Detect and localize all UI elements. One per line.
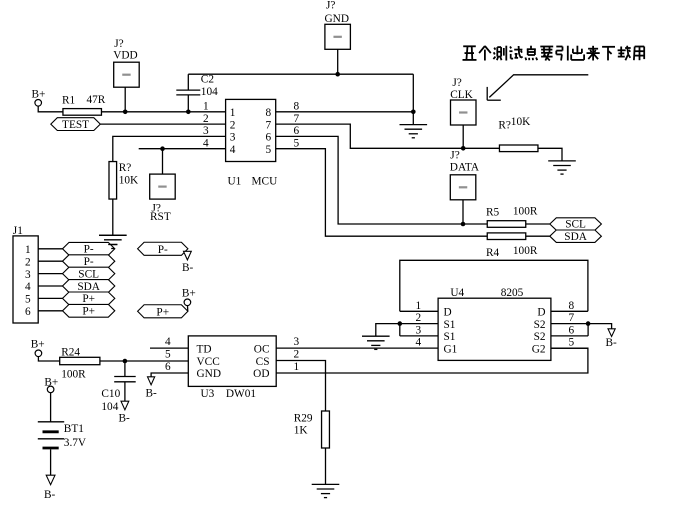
svg-text:3.7V: 3.7V — [64, 437, 87, 449]
resistor R? 10K (CLK) — [498, 116, 538, 152]
svg-text:SCL: SCL — [565, 219, 586, 231]
junction U4 pin2 — [398, 321, 403, 326]
svg-text:B-: B- — [44, 489, 56, 501]
svg-text:U4: U4 — [450, 287, 464, 299]
svg-text:100R: 100R — [61, 369, 86, 381]
wire U3 OC to U4 G1 — [276, 347, 438, 349]
svg-text:J?: J? — [452, 77, 461, 89]
svg-text:U1: U1 — [228, 176, 242, 188]
svg-text:TEST: TEST — [62, 119, 89, 131]
svg-text:B-: B- — [182, 262, 194, 274]
svg-text:4: 4 — [25, 281, 31, 293]
svg-text:C2: C2 — [201, 73, 215, 85]
svg-text:3: 3 — [416, 324, 422, 336]
svg-text:R24: R24 — [61, 347, 80, 359]
svg-text:R4: R4 — [486, 247, 500, 259]
svg-text:1: 1 — [203, 101, 209, 113]
svg-text:S2: S2 — [534, 319, 546, 331]
svg-text:5: 5 — [294, 138, 300, 150]
svg-text:C10: C10 — [101, 388, 120, 400]
svg-text:B-: B- — [606, 337, 618, 349]
wire U1 pin 4 — [139, 148, 226, 150]
svg-text:CS: CS — [256, 356, 270, 368]
resistor R? 10K (pulldown) — [109, 162, 139, 200]
svg-text:P-: P- — [158, 244, 168, 256]
svg-text:4: 4 — [416, 337, 422, 349]
wire GND connector drop — [337, 49, 339, 74]
svg-text:D: D — [537, 307, 545, 319]
wire U1 pin 7 to R? 10K — [276, 124, 501, 148]
node B+ terminal (BT1) — [44, 377, 58, 393]
terminal B- (C10) — [119, 401, 131, 424]
IC U3 DW01 — [188, 336, 276, 400]
svg-text:100R: 100R — [513, 245, 538, 257]
resistor R4 — [486, 233, 538, 259]
svg-text:7: 7 — [569, 312, 575, 324]
resistor R29 — [294, 411, 330, 448]
net label SDA — [550, 230, 602, 243]
svg-text:R?: R? — [498, 119, 511, 131]
capacitor C2 — [176, 73, 218, 112]
terminal B- (U4 S2) — [606, 329, 618, 349]
wire R? to ground (CLK) — [538, 148, 562, 161]
svg-text:6: 6 — [25, 306, 31, 318]
svg-text:5: 5 — [569, 337, 575, 349]
svg-text:3: 3 — [294, 336, 300, 348]
wire DATA drop — [462, 200, 464, 224]
svg-text:3: 3 — [230, 132, 236, 144]
svg-text:TD: TD — [197, 343, 212, 355]
svg-text:J?: J? — [114, 38, 123, 50]
wire U3 TD stub — [150, 347, 188, 349]
junction C2-rail — [186, 110, 191, 115]
wire RST drop — [162, 149, 164, 174]
wire VDD drop — [124, 87, 126, 112]
wire U4 D-D top loop — [400, 260, 588, 311]
svg-text:8205: 8205 — [501, 287, 524, 299]
wire U1 pin 6 to R5 — [276, 136, 487, 224]
U1 pin number labels — [203, 101, 300, 150]
svg-text:104: 104 — [201, 86, 218, 98]
net label P+ (to B+) — [138, 305, 188, 319]
ground (CLK pull) — [548, 161, 576, 174]
wire R5 to SCL — [526, 223, 550, 225]
junction VCC/C10 — [123, 359, 128, 364]
svg-text:7: 7 — [266, 119, 272, 131]
svg-text:47R: 47R — [87, 94, 106, 106]
U4 pin number labels — [416, 300, 575, 349]
svg-text:SDA: SDA — [77, 281, 100, 293]
svg-text:BT1: BT1 — [64, 423, 84, 435]
wire TEST to U1 pin 2 — [100, 123, 225, 125]
wire U4 pin 1 — [400, 310, 438, 312]
svg-text:B+: B+ — [31, 339, 45, 351]
junction DATA — [461, 222, 466, 227]
svg-text:B+: B+ — [32, 89, 46, 101]
node B+ terminal (R24) — [31, 339, 45, 357]
svg-text:100R: 100R — [513, 206, 538, 218]
svg-text:5: 5 — [266, 144, 272, 156]
svg-text:U3: U3 — [201, 388, 215, 400]
svg-text:B-: B- — [119, 413, 131, 425]
wire U4 pin 6 — [551, 335, 588, 337]
svg-text:5: 5 — [25, 294, 31, 306]
svg-text:R5: R5 — [486, 207, 500, 219]
svg-text:DATA: DATA — [450, 162, 480, 174]
ground (R? pulldown overlay) — [99, 235, 127, 248]
svg-text:CLK: CLK — [450, 89, 473, 101]
resistor R1 — [62, 94, 106, 115]
svg-text:2: 2 — [416, 312, 422, 324]
svg-text:P+: P+ — [156, 306, 169, 318]
svg-text:P+: P+ — [82, 306, 95, 318]
svg-text:G2: G2 — [532, 344, 546, 356]
wire BT1 to B- — [50, 449, 52, 475]
svg-text:3: 3 — [25, 269, 31, 281]
svg-text:VCC: VCC — [197, 356, 220, 368]
svg-text:2: 2 — [203, 113, 209, 125]
svg-text:R?: R? — [119, 162, 132, 174]
svg-text:RST: RST — [150, 211, 171, 223]
connector J? RST — [150, 174, 176, 223]
svg-text:J1: J1 — [13, 225, 23, 237]
IC U1 MCU — [226, 99, 278, 187]
connector J? VDD — [113, 38, 139, 87]
junction CLK — [461, 146, 466, 151]
svg-text:1: 1 — [294, 361, 300, 373]
resistor R5 — [486, 206, 538, 228]
junction pin8-gnd — [411, 110, 416, 115]
junction RST — [160, 146, 165, 151]
annotation text (Chinese): five test points must be brought out for download — [463, 46, 645, 61]
svg-text:S1: S1 — [444, 319, 456, 331]
svg-text:GND: GND — [197, 368, 221, 380]
connector J? GND — [325, 0, 351, 49]
wire U1 pin 8 — [276, 111, 414, 113]
svg-text:5: 5 — [165, 349, 171, 361]
ground (U4 S1) — [362, 336, 390, 349]
connector J? DATA — [450, 150, 480, 200]
ground (top, near U1 pin 8) — [400, 125, 428, 138]
node B+ terminal (top-left) — [32, 89, 46, 107]
wire R4 to SDA — [526, 235, 550, 237]
svg-text:8: 8 — [294, 101, 300, 113]
svg-text:6: 6 — [569, 324, 575, 336]
svg-text:S1: S1 — [444, 331, 456, 343]
ground (below R? 10K) — [99, 235, 127, 248]
svg-text:2: 2 — [230, 119, 236, 131]
wire B+ to BT1 — [50, 393, 52, 422]
U3 pin number labels — [165, 336, 300, 373]
svg-text:SCL: SCL — [78, 268, 99, 280]
svg-text:R29: R29 — [294, 413, 313, 425]
wire U4 pin 8 — [551, 310, 588, 312]
svg-text:1: 1 — [416, 300, 422, 312]
wire C2 top to ground rail — [188, 73, 413, 75]
svg-text:S2: S2 — [534, 331, 546, 343]
wire U3 OD to U4 G2 — [276, 348, 588, 373]
annotation arrow — [487, 75, 588, 100]
wire U4 pin 2 to ground — [376, 324, 438, 337]
IC U4 8205 — [438, 287, 551, 360]
svg-text:6: 6 — [165, 361, 171, 373]
wires J1 to net labels — [38, 249, 62, 311]
junction VDD-rail — [123, 110, 128, 115]
wire U1 pin 3 to R? — [113, 136, 226, 161]
svg-text:6: 6 — [266, 132, 272, 144]
svg-text:4: 4 — [230, 144, 236, 156]
svg-text:7: 7 — [294, 113, 300, 125]
wire U4 pin 5 — [551, 347, 588, 349]
net label TEST — [51, 118, 101, 131]
terminal B- (P-) — [182, 251, 194, 274]
svg-text:4: 4 — [165, 336, 171, 348]
svg-text:1K: 1K — [294, 425, 309, 437]
wire U3 GND to B- — [151, 373, 188, 377]
svg-text:VDD: VDD — [113, 50, 137, 62]
svg-text:104: 104 — [101, 401, 118, 413]
svg-text:B-: B- — [146, 388, 158, 400]
svg-text:1: 1 — [25, 244, 31, 256]
svg-text:10K: 10K — [511, 116, 531, 128]
svg-text:2: 2 — [294, 349, 300, 361]
ground (below R29) — [312, 484, 340, 497]
net labels on J1 (P-,P-,SCL,SDA,P+,P+) — [63, 242, 115, 317]
wire U4 pin 7 to B- — [551, 324, 612, 329]
svg-text:G1: G1 — [444, 344, 458, 356]
svg-text:2: 2 — [25, 256, 31, 268]
svg-text:1: 1 — [230, 107, 236, 119]
wire stub to ground — [412, 112, 414, 125]
wire R? to ground — [112, 199, 114, 235]
svg-text:P-: P- — [84, 256, 94, 268]
connector J? CLK — [450, 77, 476, 125]
svg-text:OC: OC — [254, 343, 270, 355]
svg-text:3: 3 — [203, 125, 209, 137]
junction GND-wire — [335, 72, 340, 77]
wire U4 pin 3 — [400, 335, 438, 337]
connector J1 — [13, 225, 38, 323]
wire CLK drop — [462, 125, 464, 148]
wire R1 to U1 pin 1 — [101, 111, 226, 113]
svg-text:D: D — [444, 307, 452, 319]
terminal B+ (P+) — [182, 288, 196, 312]
svg-text:R1: R1 — [62, 95, 75, 107]
net label P- (to B-) — [138, 242, 188, 256]
svg-text:6: 6 — [294, 125, 300, 137]
terminal B- (BT1) — [44, 475, 56, 501]
svg-text:10K: 10K — [119, 174, 139, 186]
wire U3 CS to R29 — [276, 361, 325, 412]
svg-text:OD: OD — [253, 368, 269, 380]
wire B+ to R1 — [38, 106, 63, 112]
capacitor C10 — [101, 361, 135, 413]
svg-text:4: 4 — [203, 138, 209, 150]
svg-text:GND: GND — [325, 13, 349, 25]
svg-text:8: 8 — [569, 300, 575, 312]
wire U4 S2 jumper — [587, 324, 589, 336]
wire gnd rail down — [412, 74, 414, 112]
svg-text:DW01: DW01 — [226, 388, 256, 400]
wire U1 pin 5 to R4 — [276, 149, 487, 237]
terminal B- (U3 GND) — [146, 377, 158, 400]
wire R29 to ground — [325, 448, 327, 484]
svg-text:B+: B+ — [182, 288, 196, 300]
resistor R24 — [60, 347, 100, 381]
battery BT1 3.7V — [38, 422, 87, 449]
svg-text:MCU: MCU — [252, 176, 278, 188]
junction U4 pin7 — [586, 321, 591, 326]
wire R24 to U3 VCC — [100, 360, 188, 362]
svg-text:P-: P- — [84, 244, 94, 256]
svg-text:J?: J? — [326, 0, 335, 12]
wire U4 S1 jumper — [399, 324, 401, 336]
svg-text:8: 8 — [266, 107, 272, 119]
net label SCL — [550, 218, 602, 231]
wire B+ to R24 — [38, 357, 59, 361]
svg-text:SDA: SDA — [564, 231, 587, 243]
svg-text:J?: J? — [450, 150, 459, 162]
svg-text:P+: P+ — [82, 293, 95, 305]
